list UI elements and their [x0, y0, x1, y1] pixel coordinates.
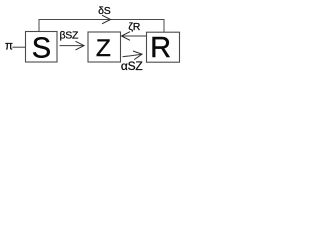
svg-text:R: R [150, 32, 171, 64]
svg-text:βSZ: βSZ [59, 29, 79, 41]
svg-text:ζR: ζR [128, 21, 140, 33]
svg-text:π: π [5, 41, 13, 53]
svg-text:αSZ: αSZ [121, 59, 143, 73]
svg-text:Z: Z [96, 35, 111, 62]
svg-text:S: S [32, 32, 51, 64]
svg-text:δS: δS [98, 5, 111, 17]
